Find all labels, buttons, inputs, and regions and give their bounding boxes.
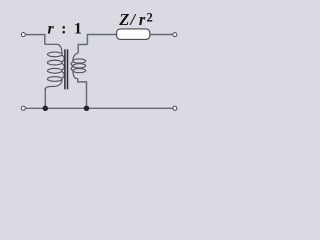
wire from box to top-right terminal — [150, 34, 173, 36]
wire top-right from secondary top lead to box — [87, 35, 116, 45]
transformer T1 primary winding L1 — [45, 44, 64, 90]
svg-text:r : 1: r : 1 — [48, 21, 84, 38]
terminal bottom-left — [21, 106, 25, 110]
impedance box Z/r^2 — [117, 29, 150, 40]
terminal bottom-right — [173, 106, 177, 110]
terminal top-left — [21, 33, 25, 37]
wire primary bottom lead — [44, 88, 46, 108]
transformer core — [65, 49, 68, 89]
junction dot left — [43, 106, 49, 112]
wire secondary bottom lead — [78, 80, 87, 109]
transformer T1 secondary winding L2 — [71, 53, 86, 80]
junction dot right — [84, 106, 90, 112]
wire secondary top lead step — [78, 45, 87, 54]
wire top-left from input terminal to primary top lead — [26, 35, 45, 45]
wire bottom rail — [26, 107, 173, 109]
terminal top-right — [173, 33, 177, 37]
